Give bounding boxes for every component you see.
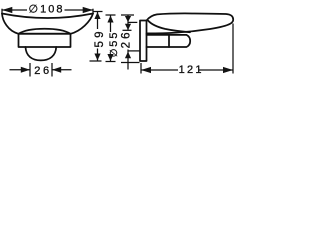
dim 55: dimension line	[110, 16, 112, 33]
dim 26 side: arrow to bottom tick	[125, 52, 131, 59]
side view: wall plate	[140, 21, 147, 62]
svg-text:26: 26	[34, 65, 51, 77]
dim 55: bottom arrow	[107, 54, 113, 61]
dim 121: extension lines	[140, 63, 142, 74]
dim 26 front: dimension line	[10, 69, 31, 71]
front view: dish outer lower edge	[2, 14, 93, 34]
dim 55: ticks	[106, 14, 116, 16]
svg-text:∅108: ∅108	[29, 4, 65, 16]
dim 55: top arrow	[107, 16, 113, 23]
front view: bowl inner bottom arc	[19, 29, 71, 34]
dim 26 side: extension lines to plate	[128, 21, 137, 23]
dim 59: ticks	[93, 11, 103, 13]
dim 26 side: ticks	[121, 14, 134, 16]
front view: dish rim upper arc	[2, 14, 93, 19]
dim 26 side: arrow to top tick	[125, 24, 131, 30]
svg-text:121: 121	[179, 64, 204, 76]
front view: bottom dome	[26, 47, 57, 60]
dim 26 front: extension bars	[29, 63, 31, 77]
front view: base plate rectangle	[19, 34, 71, 47]
dim 121: dimension line	[141, 69, 178, 71]
dim 59: bottom arrow	[94, 54, 100, 61]
dim 26 front: left arrow	[21, 67, 30, 73]
dim 108: right arrow	[83, 7, 93, 13]
dim 26 side: dimension line	[127, 16, 129, 31]
dim 59: top arrow	[94, 12, 100, 19]
dim 121: right arrow	[223, 67, 233, 73]
svg-text:59: 59	[94, 28, 106, 47]
side view: arm joint line	[168, 35, 170, 47]
dim 26 front: right arrow	[52, 67, 61, 73]
dim 26 side: upper outside arrow	[125, 16, 131, 22]
dim 108: dimension line	[2, 9, 27, 11]
dim 121: left arrow	[141, 67, 151, 73]
side view: bowl inner curve	[148, 21, 190, 33]
dim 59: dimension line	[97, 12, 99, 29]
side view: dish profile	[147, 13, 234, 33]
side view: support arm	[147, 35, 191, 47]
dim 108: left arrow	[2, 7, 12, 13]
dim 108: extension lines	[1, 9, 3, 13]
svg-text:26: 26	[120, 29, 132, 48]
svg-text:∅55: ∅55	[108, 31, 120, 58]
